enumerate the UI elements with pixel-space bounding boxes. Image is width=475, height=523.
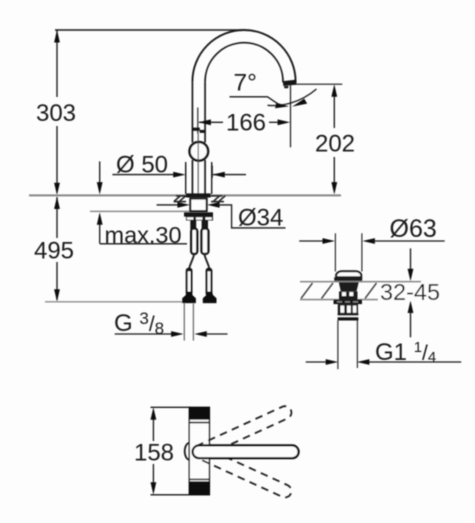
dia 50 tick left	[185, 166, 187, 178]
158 dim line	[152, 417, 154, 441]
dia 50 tick right	[211, 166, 213, 178]
body strip top inner line	[189, 422, 209, 424]
locknut band	[184, 212, 213, 216]
riser joint seam right	[200, 130, 206, 133]
dimension 495 arrows	[54, 197, 60, 210]
dimension 202 line	[333, 96, 335, 185]
hose end extension line	[45, 301, 184, 303]
hose tube right	[202, 229, 209, 254]
faucet base: hatched wing left	[174, 196, 186, 202]
dashed lever down	[191, 443, 294, 499]
hose tube left	[191, 229, 197, 254]
body strip bottom inner line	[189, 478, 209, 480]
deck hatch right	[365, 283, 391, 299]
svg-text:32-45: 32-45	[380, 279, 440, 305]
7 deg angle arrowheads	[275, 103, 289, 109]
vertical reference line at spout outlet	[290, 85, 292, 147]
svg-text:G1 1/4: G1 1/4	[375, 339, 436, 366]
faucet: ball joint	[190, 142, 209, 161]
drain cap dome	[336, 271, 361, 277]
faucet: centerline	[197, 134, 199, 195]
dashed lever up	[191, 404, 294, 460]
hose curve left	[189, 254, 194, 268]
dimension 495 vertical line	[56, 197, 58, 300]
dia 34 arrows at shank	[157, 204, 179, 206]
faucet: spout inner arc	[205, 43, 283, 83]
faucet: body below ball outer edges	[186, 162, 212, 194]
body strip (top view)	[189, 407, 209, 495]
G 3/8 dim line	[115, 333, 173, 335]
drain flange below deck	[334, 300, 363, 305]
drain threaded section with slots	[338, 304, 358, 313]
connector block with slit	[190, 221, 196, 230]
dimension 303 vertical line	[56, 30, 58, 188]
32-45 text	[378, 283, 440, 301]
G1 1/4 dim line	[306, 361, 328, 363]
faucet base: hatched wing right	[211, 196, 225, 202]
dia 34 leader and label	[218, 205, 286, 228]
solid lever	[193, 445, 299, 458]
dia 50 dim line right	[213, 174, 246, 176]
158 extension lines	[151, 406, 191, 408]
svg-text:495: 495	[34, 238, 74, 265]
nut facet band with white dashes	[186, 217, 213, 221]
hose nut right	[203, 292, 217, 304]
max.30 lower arrow	[99, 222, 101, 244]
dia 63 dim line	[299, 240, 325, 242]
7 deg angle arc	[268, 89, 317, 106]
svg-text:202: 202	[315, 131, 355, 158]
dia 50 dim line left	[112, 174, 175, 176]
top extension line	[55, 29, 246, 31]
faucet: riser outer edges	[192, 82, 205, 194]
faucet base: shank square	[190, 199, 206, 211]
connector bolt left	[187, 269, 192, 296]
sink deck top line	[300, 281, 421, 283]
dimension 166	[199, 121, 223, 123]
drain tailpipe	[337, 321, 339, 370]
connector bolt right	[207, 269, 212, 296]
faucet: spout outer arc	[192, 30, 295, 83]
dimension 202 extension line	[294, 83, 342, 85]
faucet: centerline tick through 166 dim	[197, 108, 199, 134]
aerator nub	[284, 86, 289, 88]
countertop lower line (max.30)	[90, 210, 191, 212]
32-45 dim line lower	[408, 301, 414, 314]
svg-text:Ø34: Ø34	[238, 205, 283, 232]
max.30 upper arrow	[99, 161, 101, 185]
sink deck bottom line	[300, 299, 426, 301]
svg-text:303: 303	[36, 100, 76, 127]
spout end aerator (7 deg tilt)	[283, 80, 297, 86]
cartridge bulge	[185, 443, 190, 460]
dimension 303 arrows	[54, 30, 60, 43]
svg-text:166: 166	[226, 110, 266, 137]
hose nut left	[182, 292, 196, 304]
svg-text:7°: 7°	[234, 70, 257, 97]
svg-text:158: 158	[134, 440, 174, 467]
dia 63 extension lines	[334, 233, 336, 271]
7 deg underline + leader	[230, 97, 279, 104]
drain body in deck	[339, 282, 359, 291]
hose curve right	[204, 254, 209, 268]
svg-text:Ø63: Ø63	[390, 215, 437, 243]
body strip bottom black cap	[189, 481, 209, 495]
32-45 dim line upper	[410, 248, 412, 271]
hose tail lines	[183, 303, 185, 341]
riser joint seam left	[192, 128, 200, 131]
deck hatch left	[301, 283, 333, 299]
countertop line	[29, 194, 341, 196]
faucet base: flange bar	[186, 193, 211, 197]
body strip top black cap	[189, 407, 209, 419]
drain cap flange	[334, 277, 362, 282]
drain ring section	[338, 314, 359, 316]
